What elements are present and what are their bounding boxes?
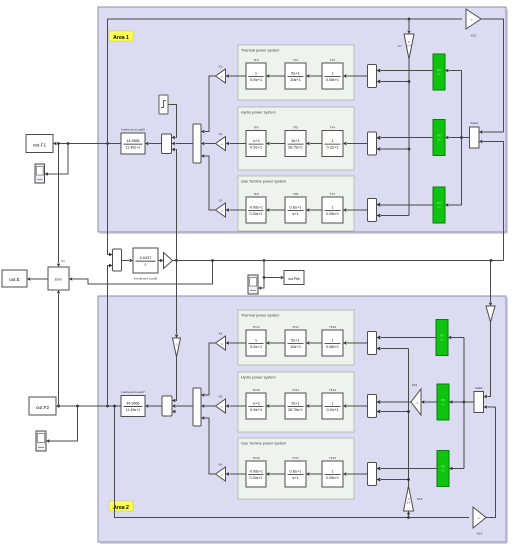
svg-text:Gas Turbine power system: Gas Turbine power system [241, 180, 286, 184]
svg-text:TF6: TF6 [253, 125, 259, 129]
wire row y=474 segments [226, 472, 368, 475]
svg-text:Hydro power system: Hydro power system [241, 111, 276, 115]
svg-text:Hydro power system: Hydro power system [241, 376, 276, 380]
Inertia and Load3 block (Area 1) [121, 128, 145, 155]
load step block (Area 1) [159, 95, 168, 114]
svg-text:TF15: TF15 [252, 388, 259, 392]
gain K14 [473, 507, 486, 536]
wire F2 up to Error block [57, 290, 60, 406]
svg-text:-s+1: -s+1 [252, 138, 261, 143]
transfer function block TF7 [322, 192, 343, 223]
svg-text:out.E: out.E [9, 277, 20, 282]
wire frequency F2 to outputs [56, 404, 121, 407]
svg-text:0.05s+1: 0.05s+1 [326, 212, 339, 216]
wire row y=76 segments [226, 74, 368, 77]
wire combiner to generator sum [176, 143, 194, 145]
svg-text:K6: K6 [219, 462, 223, 466]
wire ACE2 feed vertical to PID inputs [448, 336, 465, 470]
tie-line sign gain (Area 2 right) [486, 306, 495, 322]
svg-text:1: 1 [332, 205, 334, 209]
wire bottom frequency feedback (Area 2) [115, 406, 477, 519]
wire sign gain to ACE2 input [484, 322, 491, 398]
svg-text:0.0437: 0.0437 [140, 256, 152, 260]
wire Inertia and Load5 to tie gain [158, 259, 164, 262]
transfer function block TF10 [322, 325, 343, 356]
gain K7 (1/2.4 droop) [398, 34, 414, 59]
svg-text:TF14: TF14 [292, 388, 299, 392]
svg-text:0.5s+1: 0.5s+1 [250, 145, 263, 150]
svg-text:PID: PID [440, 334, 444, 338]
svg-text:TF10: TF10 [329, 325, 336, 329]
svg-text:TF7: TF7 [330, 192, 336, 196]
svg-text:PID: PID [441, 398, 445, 402]
svg-text:28.75s+1: 28.75s+1 [288, 408, 303, 412]
gain K6 [216, 462, 226, 481]
svg-text:TF1: TF1 [330, 58, 336, 62]
wire K19 to sum5 [377, 400, 411, 403]
svg-text:0.5s+1: 0.5s+1 [250, 77, 263, 82]
svg-text:0.08s+1: 0.08s+1 [326, 345, 339, 349]
outport out.E [2, 270, 27, 287]
Area 1 background box [98, 7, 507, 233]
scope Scope2 [36, 431, 46, 451]
svg-text:TF18: TF18 [252, 456, 259, 460]
transfer function block TF9 [246, 192, 266, 223]
svg-text:Thermal power system: Thermal power system [241, 49, 279, 53]
svg-text:Gas Turbine power system: Gas Turbine power system [241, 442, 286, 446]
wire tie-line gain into Area 2 sum [175, 357, 178, 401]
wire F2 to Scope2 [46, 406, 78, 443]
transfer function block TF8 [285, 192, 306, 223]
svg-text:TF13: TF13 [329, 388, 336, 392]
svg-text:28.75s+1: 28.75s+1 [288, 146, 303, 150]
wire generator sum to Inertia and Load7 [145, 404, 162, 407]
transfer function block TF6 [246, 125, 266, 156]
svg-text:PID: PID [437, 134, 441, 138]
PID controller 5 [437, 384, 449, 420]
sum block (Area 1 generator) [162, 134, 175, 154]
wire K7 droop distribution (Area 1) [377, 59, 410, 217]
Gas Turbine power system group (Area 1) [238, 176, 354, 231]
wire tie-line feedback to Error block [69, 261, 213, 285]
wire K4 output to combiner [205, 343, 216, 395]
svg-text:0.6s+1: 0.6s+1 [289, 468, 302, 473]
svg-text:1: 1 [332, 469, 334, 473]
svg-text:s+1: s+1 [292, 475, 299, 480]
transfer function block TF16 [322, 456, 343, 487]
svg-text:f12: f12 [61, 259, 65, 263]
wire row y=406 segments [226, 404, 368, 407]
svg-text:1: 1 [332, 71, 334, 75]
svg-text:2.4: 2.4 [407, 502, 411, 505]
wire PID output to sum (row 474) [377, 467, 437, 470]
gain K15 (1/2.4 droop) [404, 486, 423, 511]
svg-text:(s): (s) [438, 73, 441, 76]
sum block sum6 [368, 463, 380, 486]
ACE2 block [464, 386, 484, 413]
gain K5 [216, 394, 226, 413]
svg-text:-K-: -K- [220, 210, 223, 212]
svg-text:0.5s+1: 0.5s+1 [250, 407, 263, 412]
svg-text:(s): (s) [442, 470, 445, 473]
wire generator sum to Inertia and Load3 [145, 142, 162, 145]
wire PID output to sum (row 210) [377, 203, 433, 206]
svg-text:PID: PID [441, 465, 445, 469]
wire Error to out.E [27, 277, 48, 280]
wire tie-line down to Area 2 sign gain [489, 261, 492, 307]
svg-text:0.2s+1: 0.2s+1 [326, 145, 339, 150]
svg-text:TF8: TF8 [293, 192, 299, 196]
PID controller 2 [433, 120, 445, 156]
svg-text:TF11: TF11 [292, 325, 299, 329]
svg-text:11.49s+1: 11.49s+1 [126, 408, 141, 412]
svg-text:11.49s+1: 11.49s+1 [126, 146, 141, 150]
svg-text:Area 2: Area 2 [113, 505, 129, 511]
outport out.Ptie [284, 271, 304, 285]
svg-text:5s+1: 5s+1 [292, 401, 300, 405]
svg-text:5s+1: 5s+1 [292, 139, 300, 143]
wire K6 output to combiner [205, 418, 216, 474]
svg-text:Error: Error [55, 278, 63, 282]
svg-text:Inertia and Load5: Inertia and Load5 [134, 277, 158, 281]
svg-text:10s+1: 10s+1 [290, 77, 302, 82]
wire K3 output to combiner [205, 156, 216, 210]
wire F1 to Scope1 [45, 144, 69, 176]
wire load step to generator sum [168, 105, 177, 138]
sum block (Area 2 generator) [162, 396, 175, 416]
wire F1 branch up to top bias line [107, 19, 109, 144]
wire K15 droop distribution (Area 2) [377, 347, 410, 486]
svg-text:44.9566: 44.9566 [127, 139, 140, 143]
svg-text:PID: PID [437, 201, 441, 205]
Thermal power system group (Area 2) [238, 310, 354, 365]
wire tie-line to Ptie outputs [258, 261, 284, 290]
Area 2 label [109, 501, 133, 511]
tie-line gain triangle [164, 253, 173, 269]
wire tie-line to ACE1 input [479, 140, 504, 261]
wire row y=143.5 segments [226, 142, 368, 145]
svg-text:TF17: TF17 [292, 456, 299, 460]
svg-text:TF12: TF12 [252, 325, 259, 329]
wire tie-line feedback into Area 1 sum [175, 150, 178, 339]
wire K12 to ACE1 input [479, 19, 504, 134]
tie-line sum block [109, 249, 121, 271]
wire bottom line into K15 [407, 511, 410, 518]
wire K5 output to combiner [205, 405, 216, 407]
wire tie-line main distribution [173, 259, 504, 262]
gain K19 [411, 383, 421, 415]
PID controller 4 [436, 320, 448, 356]
svg-text:out.F1: out.F1 [33, 142, 46, 147]
svg-text:1: 1 [332, 338, 334, 342]
svg-text:Inertia and Load7: Inertia and Load7 [121, 390, 145, 394]
svg-text:10s+1: 10s+1 [290, 344, 302, 349]
Gas Turbine power system group (Area 2) [238, 438, 354, 499]
transfer function block TF14 [285, 388, 306, 419]
gain K3 [216, 198, 226, 217]
svg-text:Area 1: Area 1 [113, 35, 129, 41]
svg-text:(s): (s) [438, 206, 441, 209]
svg-text:ACE1: ACE1 [470, 121, 478, 125]
svg-text:out.F2: out.F2 [36, 405, 49, 410]
sum block sum5 [368, 395, 380, 418]
svg-text:0.6s+1: 0.6s+1 [289, 204, 302, 209]
svg-text:(s): (s) [438, 139, 441, 142]
transfer function block TF5 [285, 125, 306, 156]
svg-text:TF3: TF3 [253, 58, 259, 62]
transfer function block TF13 [322, 388, 343, 419]
svg-text:-K-: -K- [220, 76, 223, 78]
sum block sum2 [368, 132, 380, 155]
svg-text:K5: K5 [219, 394, 223, 398]
gain K12 [466, 9, 481, 38]
svg-text:K2: K2 [219, 132, 223, 136]
svg-text:Inertia and Load3: Inertia and Load3 [121, 128, 145, 132]
wire F1 down to Error block [57, 144, 60, 268]
svg-text:TF5: TF5 [293, 125, 299, 129]
svg-text:Thermal power system: Thermal power system [241, 314, 279, 318]
wire ACE1 feed vertical to PID inputs [445, 69, 463, 207]
Area 2 background box [98, 296, 507, 543]
ACE1 block [462, 121, 480, 148]
wire top frequency feedback (Area 1) [108, 17, 470, 20]
wire F2 branch up to tie-line sum [108, 264, 113, 406]
svg-text:K19: K19 [412, 383, 418, 387]
wire K2 output to combiner [205, 143, 216, 145]
wire PID output to sum (row 143.5) [377, 136, 433, 139]
gain K1 [216, 64, 226, 83]
svg-text:K4: K4 [219, 331, 223, 335]
svg-text:0.25s+1: 0.25s+1 [250, 212, 263, 216]
svg-text:TF16: TF16 [329, 456, 336, 460]
sum block sum3 [368, 199, 380, 222]
svg-text:K3: K3 [219, 198, 223, 202]
wire combiner to generator sum (Area 2) [176, 405, 193, 407]
gain K4 [216, 331, 226, 350]
svg-text:-s+1: -s+1 [252, 400, 261, 405]
svg-text:5s+1: 5s+1 [291, 70, 301, 75]
svg-text:0.05s+1: 0.05s+1 [326, 476, 339, 480]
Error block [48, 259, 69, 290]
transfer function block TF1 [322, 58, 343, 89]
svg-text:K15: K15 [417, 497, 423, 501]
tie-line sign gain (Area 2) [173, 338, 181, 357]
Inertia and Load7 block (Area 2) [121, 390, 145, 417]
svg-text:44.9566: 44.9566 [127, 401, 140, 405]
transfer function block TF12 [246, 325, 266, 356]
wire K1 output to combiner [205, 76, 216, 132]
svg-text:-K-: -K- [220, 144, 223, 146]
gain K2 [216, 132, 226, 151]
svg-text:K7: K7 [398, 44, 402, 48]
Hydro power system group (Area 1) [238, 107, 354, 170]
wire F1 branch down to tie-line sum [108, 144, 113, 257]
PID controller 6 [437, 451, 449, 487]
outport out.F1 [26, 135, 53, 153]
PID controller 3 [433, 187, 445, 223]
Hydro power system group (Area 2) [238, 372, 354, 432]
transfer function block TF3 [246, 58, 266, 89]
svg-text:-0.08s+1: -0.08s+1 [249, 205, 263, 209]
transfer function block TF11 [285, 325, 306, 356]
svg-text:K14: K14 [477, 532, 483, 536]
svg-text:TF2: TF2 [293, 58, 299, 62]
wire row y=343 segments [226, 341, 368, 344]
svg-text:ACE2: ACE2 [475, 386, 483, 390]
svg-text:(s): (s) [441, 339, 444, 342]
PID controller 1 [433, 54, 445, 90]
scope Scope1 [35, 164, 45, 183]
wire PID5 to K19 [421, 400, 437, 403]
svg-text:0.08s+1: 0.08s+1 [326, 78, 339, 82]
Area 1 label [109, 31, 133, 41]
Thermal power system group (Area 1) [238, 45, 354, 100]
svg-text:s: s [145, 263, 147, 267]
wire frequency F1 to outputs [53, 142, 121, 145]
svg-text:TF4: TF4 [330, 125, 336, 129]
svg-text:K12: K12 [471, 34, 477, 38]
wire PID output to sum (row 76) [377, 69, 433, 72]
sum block sum4 [368, 332, 380, 355]
svg-text:-K-: -K- [220, 474, 223, 476]
svg-text:(s): (s) [442, 403, 445, 406]
outport out.F2 [29, 397, 56, 415]
wire tie sum to Inertia and Load5 [122, 259, 134, 262]
svg-text:-0.08s+1: -0.08s+1 [249, 469, 263, 473]
svg-text:s+1: s+1 [292, 211, 299, 216]
svg-text:5s+1: 5s+1 [291, 337, 301, 342]
transfer function block TF17 [285, 456, 306, 487]
wire PID output to sum (row 343) [377, 336, 436, 339]
svg-text:-K-: -K- [220, 406, 223, 408]
transfer function block TF15 [246, 388, 266, 419]
transfer function block TF4 [322, 125, 343, 156]
svg-text:-K-: -K- [220, 343, 223, 345]
scope Scope3 (tie-line) [248, 275, 258, 294]
Inertia and Load5 block (tie-line) [133, 248, 158, 281]
transfer function block TF2 [285, 58, 306, 89]
svg-text:0.2s+1: 0.2s+1 [326, 407, 339, 412]
wire top line into K7 [407, 19, 410, 34]
transfer function block TF18 [246, 456, 266, 487]
svg-text:out.Ptie: out.Ptie [288, 277, 300, 281]
signal combiner block (Area 1) [193, 124, 204, 163]
signal combiner block (Area 2) [193, 388, 204, 426]
wire row y=210 segments [226, 208, 368, 211]
svg-text:PID: PID [437, 68, 441, 72]
wire K14 to ACE2 input [484, 405, 496, 517]
svg-text:-K-: -K- [416, 402, 419, 404]
svg-text:K1: K1 [219, 64, 223, 68]
svg-text:0.25s+1: 0.25s+1 [250, 476, 263, 480]
svg-text:0.5s+1: 0.5s+1 [250, 344, 263, 349]
svg-text:TF9: TF9 [253, 192, 259, 196]
sum block sum1 [368, 65, 380, 88]
svg-text:2.4: 2.4 [407, 45, 411, 48]
